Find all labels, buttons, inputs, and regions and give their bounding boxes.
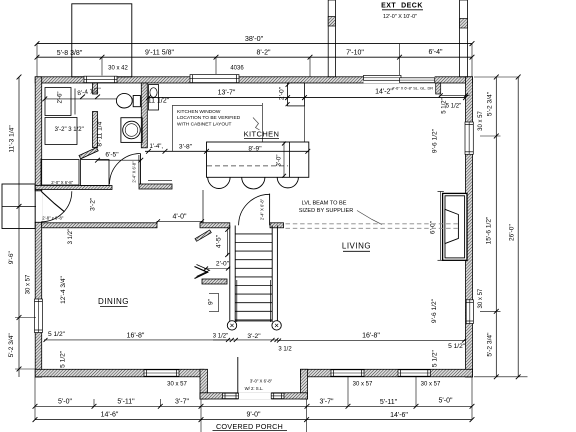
svg-text:4'-6" X 6'-8" SL. GL. DR: 4'-6" X 6'-8" SL. GL. DR (392, 86, 433, 91)
svg-text:3'-2" 3 1/2": 3'-2" 3 1/2" (55, 127, 84, 133)
svg-text:5'-0": 5'-0" (58, 398, 72, 405)
svg-text:14'-6": 14'-6" (390, 412, 408, 419)
svg-text:11 1/2": 11 1/2" (148, 97, 170, 104)
svg-text:9'-6 1/2": 9'-6 1/2" (431, 298, 438, 323)
svg-text:30 x 42: 30 x 42 (108, 65, 128, 71)
svg-text:2'-4" X 6'-8": 2'-4" X 6'-8" (260, 198, 265, 220)
svg-text:5'-11": 5'-11" (380, 399, 398, 406)
svg-text:5 1/2": 5 1/2" (59, 350, 66, 368)
svg-text:38'-0": 38'-0" (245, 34, 264, 43)
svg-text:3'-2": 3'-2" (247, 333, 261, 340)
svg-text:3 1/2: 3 1/2 (278, 347, 292, 353)
svg-text:LVL BEAM TO BE: LVL BEAM TO BE (302, 201, 347, 207)
svg-text:3 1/2": 3 1/2" (213, 333, 228, 339)
svg-text:30 x 57: 30 x 57 (353, 381, 373, 387)
svg-text:12'-4 3/4": 12'-4 3/4" (60, 275, 67, 303)
svg-text:9'-6 1/2": 9'-6 1/2" (432, 128, 439, 153)
svg-text:6'-0": 6'-0" (430, 220, 437, 234)
svg-text:14'-6": 14'-6" (101, 411, 119, 418)
svg-text:2'-0": 2'-0" (279, 86, 286, 100)
svg-text:5'-0": 5'-0" (439, 398, 453, 405)
svg-text:15'-6 1/2": 15'-6 1/2" (486, 216, 493, 244)
svg-text:KITCHEN: KITCHEN (244, 129, 280, 138)
svg-text:5'-2 3/4": 5'-2 3/4" (487, 91, 494, 116)
svg-text:LIVING: LIVING (342, 242, 371, 251)
svg-text:3'-8": 3'-8" (179, 143, 193, 150)
svg-text:13'-7": 13'-7" (218, 90, 236, 97)
svg-text:16'-8": 16'-8" (362, 333, 380, 340)
svg-text:9'-6": 9'-6" (8, 250, 15, 264)
svg-text:5'-2 3/4": 5'-2 3/4" (8, 333, 15, 358)
svg-text:W/ 2: S.L.: W/ 2: S.L. (245, 386, 264, 391)
svg-text:4'-0": 4'-0" (173, 213, 187, 220)
svg-text:30 x 57: 30 x 57 (421, 381, 441, 387)
svg-text:WITH CABINET LAYOUT: WITH CABINET LAYOUT (177, 121, 232, 127)
svg-text:26'-0": 26'-0" (509, 224, 516, 241)
svg-text:8'-9": 8'-9" (248, 146, 262, 153)
svg-text:9": 9" (207, 298, 214, 305)
svg-text:SIZED BY SUPPLIER: SIZED BY SUPPLIER (299, 208, 354, 214)
svg-text:3'-2": 3'-2" (89, 197, 96, 211)
svg-text:3'-0": 3'-0" (276, 155, 282, 167)
svg-text:2'-0" X 6'-8": 2'-0" X 6'-8" (51, 180, 73, 185)
svg-text:8'-11 1/4": 8'-11 1/4" (96, 119, 103, 147)
svg-text:5 1/2": 5 1/2" (446, 104, 461, 110)
svg-text:3 1/2": 3 1/2" (68, 229, 74, 244)
svg-text:14'-2": 14'-2" (375, 89, 393, 96)
svg-text:16'-8": 16'-8" (127, 333, 145, 340)
svg-text:9'-11 5/8": 9'-11 5/8" (145, 50, 175, 57)
svg-text:6'-5": 6'-5" (105, 152, 119, 159)
svg-text:5'-2 3/4": 5'-2 3/4" (487, 332, 494, 357)
svg-text:5 1/2": 5 1/2" (448, 343, 466, 350)
svg-text:2'-6": 2'-6" (58, 91, 64, 103)
svg-text:5'-8 3/8": 5'-8 3/8" (57, 50, 83, 57)
svg-text:2'-0": 2'-0" (216, 260, 230, 267)
svg-text:EXT DECK: EXT DECK (381, 3, 423, 10)
svg-text:30 x 57: 30 x 57 (478, 110, 484, 130)
svg-text:7'-10": 7'-10" (346, 50, 364, 57)
svg-text:4'-5": 4'-5" (216, 234, 223, 248)
svg-text:5'-11": 5'-11" (117, 399, 135, 406)
svg-text:11'-3 1/4": 11'-3 1/4" (9, 125, 16, 153)
svg-text:5 1/2": 5 1/2" (432, 349, 439, 367)
svg-text:3'-0" X 6'-8": 3'-0" X 6'-8" (250, 379, 273, 384)
svg-text:4036: 4036 (230, 65, 244, 71)
svg-text:5 1/2": 5 1/2" (48, 331, 66, 338)
svg-text:3'-7": 3'-7" (320, 399, 334, 406)
svg-text:KITCHEN WINDOW: KITCHEN WINDOW (177, 109, 221, 115)
svg-text:3'-7": 3'-7" (175, 399, 189, 406)
svg-text:DINING: DINING (98, 297, 129, 306)
svg-text:2'-4" X 6'-8": 2'-4" X 6'-8" (132, 161, 137, 183)
svg-text:COVERED PORCH: COVERED PORCH (216, 422, 283, 431)
svg-text:30 x 57: 30 x 57 (478, 288, 484, 308)
svg-text:30 x 57: 30 x 57 (167, 381, 187, 387)
svg-text:LOCATION TO BE VERIFIED: LOCATION TO BE VERIFIED (177, 115, 241, 121)
svg-text:6'-4": 6'-4" (429, 49, 443, 56)
svg-text:8'-2": 8'-2" (257, 50, 271, 57)
svg-text:9'-0": 9'-0" (247, 412, 261, 419)
svg-text:30 x 57: 30 x 57 (25, 274, 31, 294)
svg-text:1'-4",: 1'-4", (149, 144, 163, 150)
svg-text:2'-8" x 6'-8": 2'-8" x 6'-8" (42, 215, 64, 220)
svg-text:12'-0" X 10'-0": 12'-0" X 10'-0" (383, 14, 417, 20)
